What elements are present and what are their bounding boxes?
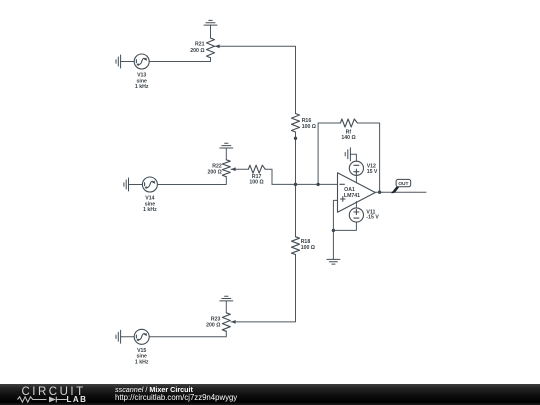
svg-text:R23: R23 — [211, 317, 221, 323]
footer line 2 — [115, 393, 237, 402]
wiper arrow R21 — [215, 44, 220, 48]
wire V14 ground stub — [129, 184, 143, 186]
ground above R22 (flipped) — [220, 143, 233, 148]
wire feedback right vertical to output — [357, 123, 379, 192]
op-amp OA1 triangle — [338, 173, 376, 212]
potentiometer R23 body — [222, 313, 230, 332]
node dot summing bus — [294, 183, 297, 186]
svg-text:200 Ω: 200 Ω — [206, 323, 220, 329]
svg-text:100 Ω: 100 Ω — [249, 180, 263, 186]
wire V11 top stub — [355, 202, 357, 208]
svg-text:100 Ω: 100 Ω — [302, 124, 316, 130]
svg-text:1 kHz: 1 kHz — [143, 207, 157, 213]
potentiometer R22 body — [222, 160, 230, 177]
svg-text:-15 V: -15 V — [366, 215, 379, 221]
wire feedback left vertical — [318, 123, 340, 184]
source V15 circle — [134, 329, 149, 344]
ground at V13 (sideways) — [116, 55, 121, 68]
wire R23 bottom to V15 — [149, 331, 226, 337]
wire R21 wiper to bus — [215, 46, 296, 113]
node dot plus rail — [332, 229, 335, 232]
svg-text:R21: R21 — [195, 42, 205, 48]
source V11 circle — [349, 208, 363, 222]
wire V12 ground to top — [350, 154, 356, 161]
ground at V15 (sideways) — [116, 330, 121, 343]
source V14 circle — [142, 177, 157, 192]
resistor Rf body — [340, 119, 357, 127]
wire R23 stem from ground — [225, 301, 227, 313]
resistor R16 body — [292, 114, 300, 133]
wire V13-ground stub — [121, 61, 135, 63]
svg-text:15 V: 15 V — [367, 169, 378, 175]
wire R21 stem from ground — [210, 25, 212, 38]
source V13 circle — [134, 54, 149, 69]
wire R17 right lead down to summing — [265, 169, 272, 184]
node dot output — [378, 191, 381, 194]
svg-text:LM741: LM741 — [344, 193, 360, 199]
svg-text:140 Ω: 140 Ω — [341, 135, 355, 141]
svg-text:200 Ω: 200 Ω — [208, 170, 222, 176]
wire bus R16 to R18 — [295, 132, 297, 237]
wire op-amp plus input down to ground — [333, 200, 337, 259]
wire bus below R18 to R23 wiper — [231, 255, 296, 322]
CircuitLab logo — [0, 384, 110, 405]
svg-text:200 Ω: 200 Ω — [190, 48, 204, 54]
OUT flag — [392, 179, 411, 193]
ground above R23 (flipped) — [220, 296, 233, 301]
wire V11 bottom to plus rail — [333, 222, 356, 230]
wire V15 ground stub — [121, 336, 135, 338]
wire V12 bottom stub — [355, 175, 357, 183]
resistor R18 body — [292, 237, 300, 255]
ground above R21 (flipped) — [204, 20, 217, 25]
wiper arrow R22 — [231, 167, 236, 171]
resistor R17 body — [248, 165, 265, 173]
ground at V12 (sideways) — [345, 148, 350, 161]
potentiometer R21 body — [207, 38, 215, 58]
wire R22 stem from ground — [225, 148, 227, 160]
footer line 1 — [115, 385, 193, 394]
node dot below R16 — [294, 137, 297, 140]
wire V13 to R21 bottom — [149, 58, 210, 62]
svg-text:LAB: LAB — [67, 395, 88, 404]
ground at V14 (sideways) — [124, 178, 129, 191]
wire V14 to R22 bottom — [157, 177, 226, 185]
footer bar — [0, 384, 540, 405]
source V12 circle — [349, 161, 363, 175]
wiper arrow R23 — [231, 320, 236, 324]
svg-text:1 kHz: 1 kHz — [135, 84, 149, 90]
ground below op-amp — [327, 259, 340, 264]
wire R17 left lead — [231, 168, 248, 170]
node dot feedback at summing — [316, 183, 319, 186]
wire output — [375, 191, 426, 193]
svg-text:100 Ω: 100 Ω — [301, 245, 315, 251]
svg-text:OUT: OUT — [398, 181, 408, 187]
svg-text:1 kHz: 1 kHz — [135, 359, 149, 365]
wire summing node to op-amp — [272, 183, 338, 185]
